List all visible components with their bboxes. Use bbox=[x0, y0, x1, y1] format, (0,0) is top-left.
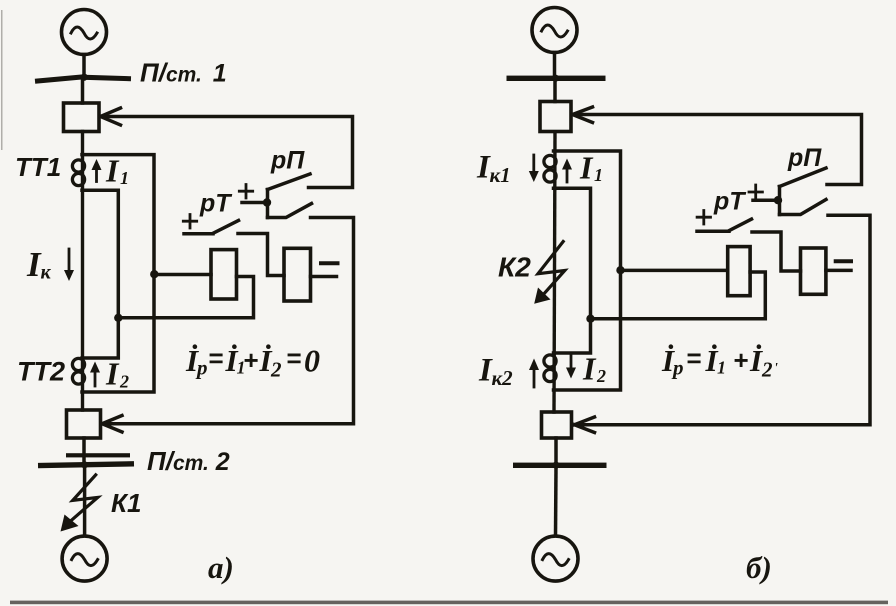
wire bus 2 to generator G2 bbox=[83, 468, 87, 536]
contact РТ plus lead (б) bbox=[697, 229, 729, 233]
svg-text:к2: к2 bbox=[492, 366, 514, 390]
wire relay coil РТ return to inner vertical (б) bbox=[591, 272, 766, 319]
contact РТ fixed side, wire down to РП coil (б) bbox=[752, 232, 801, 271]
arrow I2 (diagram a) bbox=[94, 367, 97, 386]
node РП common bbox=[263, 198, 271, 206]
svg-text:рП: рП bbox=[787, 144, 822, 172]
generator G4 bottom (diagram б) bbox=[533, 536, 578, 581]
main line breaker Q1 down through ТТ1, ТТ2 to breaker Q2 bbox=[81, 132, 84, 411]
formula Ip = I1 + I2 = 0 bbox=[185, 343, 320, 382]
junction node on outer vertical bbox=[150, 270, 158, 278]
svg-text:1: 1 bbox=[717, 358, 726, 378]
svg-text:к: к bbox=[41, 262, 52, 284]
contact РП common vertical bbox=[266, 190, 270, 218]
contact РТ blade (б) bbox=[729, 219, 752, 231]
svg-text:рТ: рТ bbox=[713, 188, 747, 216]
junction node on inner vertical (б) bbox=[586, 315, 594, 323]
contact РП lower blade bbox=[268, 204, 312, 218]
current transformer ТТ1 (diagram б) bbox=[544, 155, 556, 167]
plus sign РТ (б) bbox=[697, 211, 710, 225]
wire bus 1 to breaker Q1 bbox=[81, 79, 85, 103]
svg-text:ТТ2: ТТ2 bbox=[17, 357, 65, 387]
plus sign РТ bbox=[183, 215, 196, 229]
arrow I1 (diagram б) bbox=[566, 164, 569, 182]
svg-text:2: 2 bbox=[596, 366, 606, 386]
fault К2 lightning bolt bbox=[538, 242, 565, 297]
relay coil РП (diagram б) bbox=[801, 248, 826, 294]
current transformer ТТ1 (diagram a) bbox=[72, 160, 84, 172]
plus sign РП bbox=[239, 185, 252, 199]
contact РТ blade bbox=[213, 221, 239, 234]
bus П/ст.1 (diagram a) bbox=[38, 77, 129, 81]
formula Ip = I1 + I2 (б) bbox=[661, 343, 778, 382]
DC minus sign bbox=[321, 261, 338, 265]
wire РП lower fixed to breaker Q4 with arrow (б) bbox=[577, 215, 871, 424]
wire РП coil to DC minus bbox=[311, 275, 337, 279]
wire CT1 bottom / inner vertical / CT2 top bbox=[82, 190, 118, 358]
svg-text:а): а) bbox=[208, 550, 234, 585]
wire generator to bus 1 bbox=[82, 55, 86, 78]
svg-text:0: 0 bbox=[304, 343, 320, 379]
bus 4 (diagram б) bbox=[513, 462, 607, 469]
generator G1 top (diagram a) bbox=[62, 10, 107, 55]
trip wire with arrow into breaker Q3 from РП upper contact bbox=[575, 115, 862, 185]
svg-text:I: I bbox=[582, 351, 597, 387]
breaker Q1 (diagram a, top) bbox=[64, 103, 100, 132]
svg-text:İ: İ bbox=[749, 343, 763, 378]
svg-text:I: I bbox=[105, 356, 120, 392]
breaker Q3 (diagram б, top) bbox=[540, 102, 571, 132]
wire breaker Q4 to bus 4 bbox=[554, 438, 558, 462]
svg-text:2: 2 bbox=[270, 358, 282, 382]
wire to relay coil РТ left (б) bbox=[621, 269, 728, 273]
relay coil РТ (diagram б) bbox=[728, 247, 750, 296]
svg-text:+: + bbox=[243, 345, 258, 375]
wire bus 4 to generator G4 bbox=[554, 468, 558, 536]
contact РП common vertical (б) bbox=[778, 187, 782, 215]
svg-text:р: р bbox=[195, 356, 208, 380]
contact РП upper blade (б) bbox=[780, 168, 827, 187]
wire CT1 top / outer vertical / CT2 bottom bbox=[82, 155, 154, 392]
contact РП plus lead bbox=[242, 201, 267, 205]
svg-text:рТ: рТ bbox=[199, 190, 233, 218]
generator G2 bottom (diagram a) bbox=[62, 536, 107, 581]
svg-text:I: I bbox=[105, 153, 120, 189]
contact РП plus lead (б) bbox=[753, 199, 777, 203]
trip wire with arrow into breaker Q1 from РП upper contact bbox=[103, 117, 353, 188]
wire CT1 top / outer vertical / CT2 bottom (diagram б) bbox=[554, 151, 621, 390]
breaker Q2 (diagram a, bottom) bbox=[67, 410, 101, 438]
relay coil РТ (diagram a) bbox=[211, 250, 237, 299]
wire relay coil РТ return to inner vertical bbox=[118, 277, 253, 318]
relay coil РП (diagram a) bbox=[284, 248, 311, 301]
svg-text:2: 2 bbox=[761, 358, 773, 382]
svg-text:I: I bbox=[579, 150, 594, 186]
bus П/ст.2 (diagram a) bbox=[38, 453, 134, 468]
arrow I2 down (diagram б) bbox=[570, 354, 573, 373]
svg-text:=: = bbox=[286, 343, 301, 373]
svg-text:2: 2 bbox=[119, 372, 129, 392]
svg-text:к1: к1 bbox=[490, 163, 511, 187]
contact РТ fixed side, wire down to РП coil bbox=[238, 234, 284, 276]
wire breaker Q2 to bus 2 bbox=[82, 438, 86, 461]
svg-text:К1: К1 bbox=[111, 488, 141, 518]
wire РП lower fixed to breaker Q2 with arrow bbox=[104, 218, 354, 424]
wire bus 3 to breaker Q3 bbox=[553, 81, 557, 102]
wire CT1 bottom / inner vertical / CT2 top (diagram б) bbox=[554, 188, 591, 353]
bus 3 (diagram б) bbox=[507, 75, 606, 82]
svg-text:К2: К2 bbox=[498, 252, 531, 283]
current transformer ТТ2 (diagram б) bbox=[544, 355, 556, 367]
svg-text:рП: рП bbox=[270, 147, 305, 175]
contact РТ plus lead bbox=[184, 232, 213, 236]
page artifact: bottom band bbox=[10, 601, 888, 605]
wire to relay coil РТ left bbox=[154, 273, 211, 277]
generator G3 top (diagram б) bbox=[532, 8, 577, 53]
svg-text:+: + bbox=[733, 345, 748, 375]
svg-text:р: р bbox=[671, 356, 684, 380]
breaker Q4 (diagram б, bottom) bbox=[542, 412, 572, 438]
wire РП coil to DC minus (б) bbox=[826, 269, 851, 273]
svg-text:ТТ1: ТТ1 bbox=[15, 152, 61, 182]
svg-text:=: = bbox=[208, 343, 223, 373]
svg-text:=: = bbox=[686, 343, 701, 373]
fault К1 lightning bolt bbox=[70, 475, 98, 522]
wire generator to bus 3 bbox=[553, 53, 557, 77]
page artifact: left edge line bbox=[1, 10, 3, 150]
arrow I1 (diagram a) bbox=[95, 164, 98, 182]
plus sign РП (б) bbox=[749, 185, 762, 199]
contact РП lower blade (б) bbox=[780, 200, 827, 215]
svg-text:б): б) bbox=[746, 550, 772, 585]
junction node on outer vertical (б) bbox=[616, 266, 624, 274]
svg-text:1: 1 bbox=[120, 168, 129, 188]
svg-text:': ' bbox=[774, 361, 778, 376]
svg-text:1: 1 bbox=[594, 165, 603, 185]
current transformer ТТ2 (diagram a) bbox=[72, 358, 84, 370]
contact РП upper blade bbox=[268, 174, 311, 190]
node РП common (б) bbox=[774, 196, 782, 204]
DC minus sign (б) bbox=[836, 259, 851, 263]
junction node on inner vertical bbox=[114, 314, 122, 322]
main line breaker Q3 down through ТТ1, К2, ТТ2 to breaker Q4 bbox=[554, 132, 555, 412]
